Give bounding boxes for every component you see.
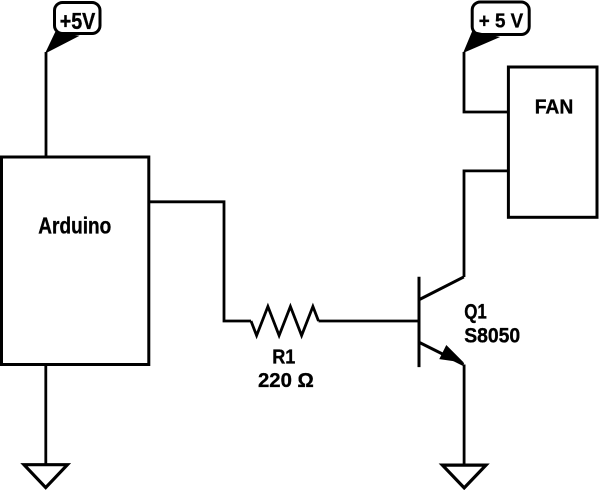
- svg-text:FAN: FAN: [535, 96, 574, 119]
- svg-text:+ 5 V: + 5 V: [479, 10, 524, 33]
- svg-text:Arduino: Arduino: [38, 213, 111, 239]
- svg-text:S8050: S8050: [464, 325, 520, 348]
- wire Q1 collector to FAN: [464, 171, 508, 277]
- ground (right): [442, 465, 486, 488]
- block FAN M1: [508, 67, 597, 217]
- power label + 5 V (top right): [464, 2, 529, 52]
- wire Q1 emitter to ground: [463, 365, 466, 465]
- wire Arduino output pin to resistor R1: [149, 202, 251, 321]
- power label +5V (top left): [46, 3, 100, 53]
- transistor Q1 (NPN S8050): [419, 277, 464, 367]
- wire Arduino bottom to ground: [44, 365, 47, 465]
- block Arduino U1: [2, 157, 149, 365]
- wire FAN to +5V (top right): [464, 52, 508, 112]
- svg-text:220 Ω: 220 Ω: [258, 370, 314, 392]
- ground (left): [24, 465, 67, 488]
- svg-text:Q1: Q1: [464, 301, 487, 324]
- wire +5V to Arduino top: [45, 52, 48, 157]
- resistor R1: [251, 307, 319, 336]
- wire R1 to Q1 base: [319, 320, 420, 323]
- svg-text:R1: R1: [272, 347, 295, 369]
- svg-text:+5V: +5V: [60, 8, 96, 34]
